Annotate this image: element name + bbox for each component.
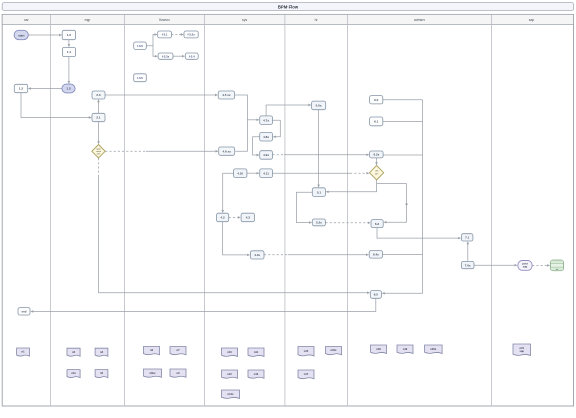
- task H: [312, 188, 325, 197]
- document note lane4 a: [222, 348, 238, 357]
- svg-text:BPM·Flow: BPM·Flow: [278, 4, 299, 9]
- svg-text:n4x: n4x: [71, 371, 76, 375]
- end pill PillEnd: [518, 261, 532, 271]
- task N: [370, 151, 384, 158]
- svg-text:6.4x: 6.4x: [373, 253, 379, 257]
- title bar: [2, 3, 573, 11]
- task U3: [184, 31, 198, 38]
- document note lane3 a: [144, 347, 160, 355]
- svg-text:n14x: n14x: [228, 392, 234, 396]
- lane divider 3: [204, 14, 206, 406]
- task M: [370, 117, 383, 126]
- svg-text:sap: sap: [529, 18, 535, 22]
- lane divider 6: [491, 14, 493, 406]
- lane divider 1: [50, 14, 52, 406]
- svg-text:1.2: 1.2: [19, 87, 24, 91]
- decision diamond O: [370, 165, 384, 180]
- wire E to N dashed: [273, 154, 285, 156]
- wire C right loop to D2: [273, 120, 281, 137]
- wire R4 to P2: [68, 57, 70, 84]
- wire N to bus: [383, 154, 422, 156]
- task B: [219, 147, 235, 155]
- document note lane6 a: [371, 345, 387, 354]
- wire J to I: [467, 242, 469, 262]
- svg-text:n10: n10: [227, 350, 232, 354]
- task Q: [370, 291, 381, 299]
- svg-text:f-3.0: f-3.0: [137, 44, 143, 48]
- svg-text:7.1: 7.1: [465, 236, 470, 240]
- lane divider 5: [347, 14, 349, 406]
- task C: [260, 116, 273, 125]
- task H2: [312, 219, 325, 226]
- svg-text:admsrv: admsrv: [414, 18, 425, 22]
- wire P2 to R1: [28, 88, 62, 90]
- svg-text:4.10: 4.10: [237, 171, 243, 175]
- document note lane2 a: [67, 348, 80, 356]
- wire O branch right down to P: [377, 184, 407, 223]
- wire bus to C: [247, 119, 259, 121]
- wire R5 to A: [105, 94, 218, 96]
- wire R3 to R4: [68, 40, 70, 47]
- document note lane2 c: [67, 370, 80, 378]
- svg-text:n19: n19: [403, 347, 408, 351]
- wire K down to H: [318, 110, 320, 187]
- wire D1 down to Q: [98, 158, 100, 175]
- wire Q2 to bus: [383, 253, 423, 255]
- wire P down right to I: [377, 228, 461, 239]
- svg-text:n16x: n16x: [331, 348, 337, 352]
- svg-text:n20x: n20x: [430, 347, 436, 351]
- task L: [370, 96, 383, 104]
- svg-text:4.2: 4.2: [221, 216, 226, 220]
- start pill S1: [14, 30, 28, 39]
- document note lane3 b: [170, 347, 186, 355]
- wire O bottom to H: [326, 180, 377, 192]
- svg-text:1.3: 1.3: [66, 87, 71, 91]
- wire R6 to R5: [98, 100, 100, 114]
- task J: [461, 261, 474, 268]
- task R4: [62, 47, 75, 56]
- svg-text:4.7x: 4.7x: [263, 118, 269, 122]
- svg-text:end: end: [22, 310, 27, 314]
- svg-text:4.3: 4.3: [246, 216, 251, 220]
- svg-text:6.0: 6.0: [374, 98, 379, 102]
- svg-text:4.8x: 4.8x: [263, 135, 269, 139]
- svg-text:f-3.5: f-3.5: [137, 76, 143, 80]
- task R1: [14, 84, 27, 92]
- wire C up to K: [266, 105, 311, 116]
- svg-text:6.2x: 6.2x: [373, 153, 379, 157]
- svg-text:5.2x: 5.2x: [316, 221, 322, 225]
- document note lane1: [17, 348, 30, 356]
- svg-text:6.1: 6.1: [374, 120, 379, 124]
- svg-text:no: no: [405, 202, 409, 206]
- wire F left down to R: [223, 173, 234, 212]
- document note lane6 c: [425, 345, 443, 354]
- task S: [241, 213, 254, 222]
- svg-text:n18: n18: [376, 347, 381, 351]
- wire R to S dashed: [229, 216, 241, 218]
- wire Q down left to R2: [31, 298, 376, 311]
- svg-text:1.1: 1.1: [67, 50, 72, 54]
- svg-text:4.11: 4.11: [263, 171, 269, 175]
- lane header band: [2, 14, 573, 24]
- wire J to PillEnd: [474, 264, 517, 266]
- svg-text:start: start: [18, 33, 25, 37]
- task Q2: [369, 251, 382, 259]
- wire F to G: [247, 172, 259, 174]
- svg-text:sap: sap: [523, 266, 528, 269]
- document note lane5 b: [326, 347, 342, 355]
- task I: [461, 234, 473, 241]
- document note lane5 c: [298, 370, 314, 379]
- wire R down to T: [223, 222, 250, 255]
- bus down to Q: [382, 100, 422, 293]
- svg-text:6.3: 6.3: [375, 222, 380, 226]
- task A: [218, 91, 234, 99]
- wire N down to O: [376, 158, 378, 165]
- svg-text:mgr: mgr: [85, 18, 92, 22]
- wire L to bus: [383, 99, 423, 101]
- task T: [250, 251, 264, 259]
- svg-text:n15: n15: [304, 349, 309, 353]
- document note lane4 e: [222, 390, 240, 399]
- wire R1 to R6: [21, 93, 91, 118]
- svg-text:6.5: 6.5: [374, 293, 379, 297]
- task D2: [260, 133, 273, 142]
- svg-text:flowsrv: flowsrv: [159, 18, 170, 22]
- document note lane2 b: [95, 348, 108, 356]
- svg-text:n13: n13: [254, 372, 259, 376]
- wire M to bus: [383, 121, 423, 123]
- task U5: [185, 53, 198, 59]
- wire U4 to U5: [173, 55, 185, 57]
- task R5: [92, 91, 105, 99]
- svg-text:f-3.2x: f-3.2x: [187, 33, 195, 37]
- svg-text:7.0x: 7.0x: [465, 263, 471, 267]
- decision diamond D1: [92, 145, 105, 159]
- svg-text:4.9x: 4.9x: [263, 153, 269, 157]
- svg-text:n11: n11: [254, 350, 259, 354]
- lane divider 2: [124, 14, 126, 406]
- svg-text:sap: sap: [520, 350, 525, 353]
- task U6: [134, 74, 147, 82]
- svg-text:4.5 xx: 4.5 xx: [222, 93, 231, 97]
- wire S1 to R3: [28, 34, 61, 36]
- svg-text:n12: n12: [227, 372, 232, 376]
- wire U2 to U3: [172, 34, 184, 36]
- task R3: [62, 30, 75, 39]
- task U1: [134, 42, 147, 49]
- wire H left down to H2: [296, 192, 312, 222]
- task K: [312, 101, 326, 110]
- database cylinder: [550, 260, 563, 271]
- svg-text:5.0x: 5.0x: [316, 104, 322, 108]
- svg-text:appr: appr: [96, 147, 101, 150]
- task G: [260, 169, 273, 178]
- document note lane6 b: [397, 345, 413, 354]
- task P: [371, 220, 383, 228]
- document note lane4 d: [248, 370, 264, 378]
- svg-text:n17: n17: [304, 372, 309, 376]
- task F: [234, 169, 247, 178]
- svg-text:f-3.3x: f-3.3x: [162, 54, 170, 58]
- end node R2: [18, 308, 30, 315]
- document note lane5 a: [298, 347, 314, 357]
- wire U1 to U2 and U4: [146, 35, 157, 46]
- wire G to O: [273, 172, 351, 174]
- svg-text:1.0: 1.0: [67, 33, 72, 37]
- document note lane3 c: [144, 369, 162, 377]
- document note lane3 d: [170, 369, 186, 377]
- lane divider 4: [284, 14, 286, 406]
- svg-text:4.6 xx: 4.6 xx: [223, 149, 232, 153]
- svg-text:n8xx: n8xx: [150, 371, 156, 375]
- document note lane4 b: [248, 348, 264, 357]
- wire T to Q2: [264, 254, 288, 256]
- svg-text:f-3.4: f-3.4: [189, 54, 195, 58]
- svg-text:5.1: 5.1: [317, 190, 322, 194]
- svg-text:sys: sys: [242, 18, 247, 22]
- task R6: [92, 113, 105, 121]
- wire H2 to P dashed: [325, 222, 370, 224]
- wire D1 to B dashed: [105, 150, 146, 152]
- svg-text:4.4x: 4.4x: [254, 253, 260, 257]
- svg-text:2.1: 2.1: [96, 116, 101, 120]
- document note lane7: [513, 344, 531, 356]
- document note lane2 d: [95, 370, 108, 378]
- task R: [217, 213, 229, 222]
- task E: [260, 151, 273, 160]
- wire PillEnd to Cyl dashed: [532, 264, 550, 266]
- document note lane4 c: [222, 370, 238, 378]
- wire A to bus: [235, 95, 248, 151]
- wire R6 to D1: [98, 122, 100, 144]
- pill P2: [62, 84, 75, 93]
- task U4: [158, 53, 173, 59]
- wire D2 left loop to E: [253, 137, 260, 155]
- svg-text:f-3.1: f-3.1: [162, 33, 168, 37]
- svg-text:2.0: 2.0: [96, 93, 101, 97]
- task U2: [158, 31, 172, 38]
